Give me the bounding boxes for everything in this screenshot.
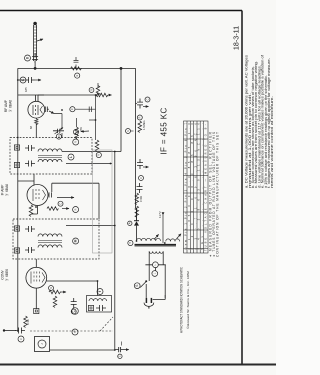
- svg-text:CONTINUATION OF THE MANUFACTUR: CONTINUATION OF THE MANUFACTURER OF THIS…: [215, 132, 219, 257]
- svg-text:A PHOTOFACT STANDARD NOTATION: A PHOTOFACT STANDARD NOTATION SCHEMATIC: [180, 266, 184, 333]
- svg-text:Ⓥ 6BA6: Ⓥ 6BA6: [8, 100, 13, 112]
- svg-text:A: A: [128, 222, 132, 224]
- svg-text:Ⓥ 6BE6: Ⓥ 6BE6: [4, 269, 9, 281]
- svg-text:CONV: CONV: [1, 269, 5, 279]
- svg-text:3.3K: 3.3K: [26, 319, 30, 325]
- svg-text:R: R: [75, 141, 78, 143]
- svg-text:R: R: [76, 74, 79, 76]
- svg-text:R: R: [74, 208, 77, 210]
- svg-text:C: C: [59, 203, 62, 205]
- svg-text:C: C: [75, 131, 78, 133]
- svg-text:IF = 455 KC: IF = 455 KC: [160, 107, 169, 154]
- svg-text:TUBE VOLTAGE CHART — MEASURED: TUBE VOLTAGE CHART — MEASURED TO B−: [204, 124, 208, 251]
- svg-text:Item Pin 1 Pin 2 Pin 3: Item Pin 1 Pin 2 Pin 3 Pin 4 Pin 5 Pin 6…: [183, 122, 187, 250]
- svg-text:R: R: [90, 89, 93, 91]
- svg-text:©Howard W. Sams & Co., Inc. 19: ©Howard W. Sams & Co., Inc. 1952: [186, 271, 190, 329]
- svg-text:Ⓥ 6BA6: Ⓥ 6BA6: [4, 184, 9, 196]
- svg-text:M: M: [74, 240, 77, 242]
- svg-text:R: R: [139, 116, 142, 118]
- svg-text:470K: 470K: [139, 196, 143, 202]
- svg-text:H: H: [129, 242, 132, 244]
- svg-text:18-3-11: 18-3-11: [232, 26, 241, 50]
- svg-text:IF AMP: IF AMP: [1, 184, 5, 196]
- svg-text:185: 185: [24, 87, 28, 92]
- svg-text:1.5MEG: 1.5MEG: [142, 120, 146, 130]
- svg-text:C: C: [71, 108, 74, 110]
- svg-text:C: C: [140, 177, 143, 179]
- svg-text:R: R: [50, 287, 53, 289]
- svg-text:R: R: [98, 154, 101, 156]
- svg-text:C: C: [119, 355, 122, 357]
- svg-text:47K: 47K: [79, 127, 83, 132]
- svg-text:ments and volume control at mi: ments and volume control at minimum.: [270, 96, 274, 188]
- svg-text:C: C: [146, 98, 149, 100]
- svg-text:117V: 117V: [158, 211, 162, 218]
- svg-text:C: C: [20, 338, 23, 340]
- svg-text:RF AMP: RF AMP: [4, 99, 8, 112]
- svg-text:C: C: [74, 310, 77, 312]
